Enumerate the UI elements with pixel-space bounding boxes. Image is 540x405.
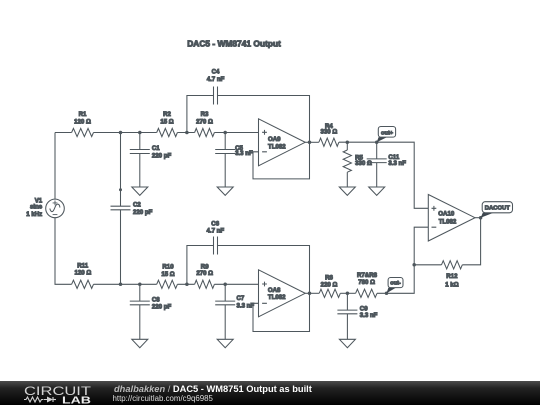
svg-text:1 kΩ: 1 kΩ <box>445 281 458 288</box>
resistor R2 <box>157 128 178 136</box>
op-amp OA10 <box>428 195 475 242</box>
ground under C1 <box>132 187 148 195</box>
svg-text:3.3 nF: 3.3 nF <box>388 160 406 167</box>
resistor R12 <box>414 264 441 266</box>
svg-text:out+: out+ <box>381 130 394 136</box>
wire C4 to feedback right <box>218 96 310 179</box>
ground under R5 <box>339 187 355 195</box>
resistor R11 <box>72 280 94 288</box>
capacitor C1 <box>139 133 141 150</box>
resistor R1 <box>72 128 94 136</box>
svg-text:C7: C7 <box>237 295 245 302</box>
wire V1 bottom to lower rail <box>55 218 72 285</box>
wire R3 to op-amp <box>214 132 258 134</box>
resistor R9 <box>195 280 215 288</box>
voltage source V1 <box>46 199 65 218</box>
wire C2 column <box>120 133 122 207</box>
wire OA9 output <box>305 141 319 143</box>
capacitor C4 <box>214 87 218 105</box>
svg-text:TL082: TL082 <box>268 294 286 301</box>
node R5 tap <box>346 140 350 144</box>
node C5 tap <box>223 131 227 135</box>
svg-text:3.3 nF: 3.3 nF <box>237 302 255 309</box>
wire R9 to op-amp <box>214 283 258 285</box>
svg-text:120 Ω: 120 Ω <box>74 118 91 125</box>
wire upper rail left <box>55 132 72 134</box>
op-amp OA9 <box>259 119 306 166</box>
wire V1 top to rail <box>54 133 56 200</box>
svg-text:R1: R1 <box>79 111 87 118</box>
svg-text:3.3 nF: 3.3 nF <box>360 312 378 319</box>
svg-text:C4: C4 <box>212 68 220 75</box>
node feedback tap upper <box>185 131 189 135</box>
wire upper feedback to C4 <box>187 96 214 133</box>
node feedback tap lower <box>185 283 189 287</box>
resistor R3 <box>195 128 215 136</box>
resistor R7&R8 <box>356 289 377 297</box>
svg-text:220 pF: 220 pF <box>152 303 172 310</box>
svg-text:780 Ω: 780 Ω <box>358 279 375 286</box>
svg-text:R7&R8: R7&R8 <box>357 272 378 279</box>
svg-text:R11: R11 <box>77 263 88 270</box>
svg-text:15 Ω: 15 Ω <box>160 118 173 125</box>
capacitor C9 <box>346 293 348 310</box>
svg-text:R10: R10 <box>162 264 174 271</box>
node out- <box>385 292 389 296</box>
wire R12 to OA10 output <box>462 218 480 265</box>
wire OA10 output <box>475 217 481 219</box>
wire R10 to R9 <box>177 283 194 285</box>
flag out+ <box>377 137 387 142</box>
svg-text:330 Ω: 330 Ω <box>321 128 338 135</box>
svg-text:220 pF: 220 pF <box>152 152 172 159</box>
wire R1 to R2 <box>94 132 157 134</box>
wire lower feedback to C6 <box>187 246 214 285</box>
footer bar <box>0 381 540 405</box>
ground under C9 <box>339 339 355 347</box>
svg-text:220 pF: 220 pF <box>133 209 153 216</box>
svg-text:4.7 nF: 4.7 nF <box>206 227 224 234</box>
svg-text:DACOUT: DACOUT <box>485 206 511 212</box>
capacitor C11 <box>376 142 378 159</box>
svg-text:270 Ω: 270 Ω <box>196 118 213 125</box>
svg-text:120 Ω: 120 Ω <box>75 270 92 277</box>
svg-text:LAB: LAB <box>62 396 91 405</box>
svg-text:220 Ω: 220 Ω <box>321 281 338 288</box>
wire R6 to R7&R8 <box>340 292 355 294</box>
svg-text:sine: sine <box>30 203 43 210</box>
op-amp OA8 <box>259 270 306 317</box>
ground under C5 <box>217 187 233 195</box>
flag out- <box>387 288 397 294</box>
svg-text:R3: R3 <box>201 111 209 118</box>
ground under C7 <box>217 339 233 347</box>
resistor R4 <box>319 138 339 146</box>
capacitor C6 <box>214 237 218 255</box>
node C1 tap <box>138 131 142 135</box>
svg-text:DAC5 - WM8741 Output: DAC5 - WM8741 Output <box>187 39 281 49</box>
resistor R6 <box>319 289 340 297</box>
wire R11 to R10 <box>94 283 157 285</box>
svg-text:4.7 nF: 4.7 nF <box>207 76 225 83</box>
svg-text:R2: R2 <box>163 111 171 118</box>
svg-text:3.3 nF: 3.3 nF <box>235 150 253 157</box>
capacitor C5 <box>224 133 226 150</box>
svg-text:OA10: OA10 <box>438 211 455 218</box>
svg-text:C8: C8 <box>152 296 160 303</box>
ground under C8 <box>132 339 148 347</box>
wire out- to OA10 inverting input <box>377 227 428 293</box>
CircuitLab logo <box>0 381 110 405</box>
svg-text:out-: out- <box>390 281 401 287</box>
resistor R10 <box>157 280 178 288</box>
svg-text:270 Ω: 270 Ω <box>196 270 213 277</box>
svg-text:R6: R6 <box>325 274 333 281</box>
node R12 tap <box>412 263 416 267</box>
wire OA8 output <box>305 292 319 294</box>
capacitor C8 <box>139 284 141 301</box>
svg-text:C1: C1 <box>152 145 160 152</box>
wire C6 to feedback right <box>218 246 310 332</box>
flag DACOUT <box>481 213 494 218</box>
resistor R5 <box>346 142 348 150</box>
node after R1 <box>119 131 123 135</box>
svg-text:TL082: TL082 <box>439 218 457 225</box>
svg-text:C6: C6 <box>211 220 219 227</box>
svg-text:R12: R12 <box>446 273 458 280</box>
capacitor C2 <box>111 206 131 210</box>
svg-text:1 kHz: 1 kHz <box>26 211 42 218</box>
svg-text:OA9: OA9 <box>268 136 281 143</box>
svg-text:330 Ω: 330 Ω <box>355 160 372 167</box>
capacitor C7 <box>224 284 226 301</box>
node out+ <box>375 140 379 144</box>
wire R2 to R3 <box>177 132 194 134</box>
ground under C11 <box>369 187 385 195</box>
svg-text:15 Ω: 15 Ω <box>161 271 174 278</box>
svg-text:C2: C2 <box>133 202 141 209</box>
wire R4 to corner <box>339 142 428 208</box>
svg-text:TL082: TL082 <box>268 143 286 150</box>
